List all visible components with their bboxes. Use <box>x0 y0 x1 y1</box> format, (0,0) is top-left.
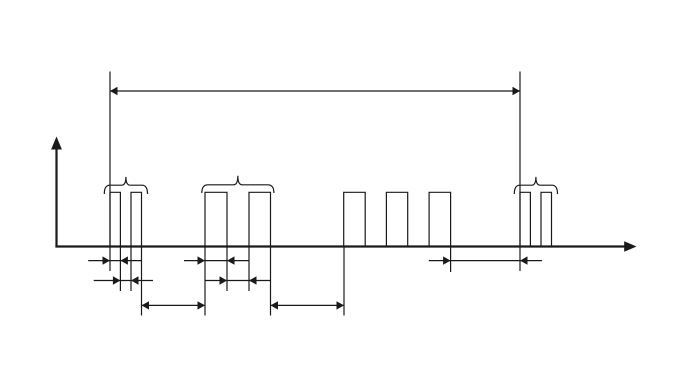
dimension row2 G2 (gap) <box>205 276 271 284</box>
extension below baseline x=450.6 <box>450 247 452 273</box>
pulse G2-P2 <box>249 192 271 246</box>
pulse G3-P1 <box>344 192 366 246</box>
y-axis <box>51 137 62 247</box>
brace over group 1 <box>104 177 147 194</box>
dimension row1 G2 (pulse width) <box>184 256 249 264</box>
pulse G3-P2 <box>386 192 407 246</box>
pulse G1-P1 <box>110 192 120 246</box>
extension line right (top dimension, x=520) <box>519 72 521 272</box>
x-axis <box>55 241 636 251</box>
pulse G4-P2 <box>541 192 552 246</box>
top dimension line <box>110 87 520 95</box>
dimension row1 right (G3 end to G4 start) <box>429 256 542 264</box>
pulse G4-P1 <box>520 192 530 246</box>
pulse G3-P3 <box>429 192 451 246</box>
pulse G1-P2 <box>131 192 142 246</box>
brace over group 2 <box>202 176 274 193</box>
dimension row3 b (G2 end to G3 start) <box>271 301 345 309</box>
dimension row2 G1 (gap) <box>94 276 153 284</box>
dimension row3 a (G1 end to G2 start) <box>142 301 206 309</box>
extension below baseline x=227 <box>226 247 228 292</box>
extension below baseline x=344 <box>343 247 345 316</box>
extension below baseline x=270.5 <box>270 247 272 316</box>
extension below baseline x=131 <box>130 247 132 292</box>
extension line left (top dimension, x=110) <box>109 72 111 272</box>
dimension row1 G1 (pulse width) <box>88 256 141 264</box>
extension below baseline x=249 <box>248 247 250 292</box>
extension below baseline x=205 <box>204 247 206 316</box>
pulse G2-P1 <box>205 192 227 246</box>
brace over group 4 <box>514 177 557 194</box>
extension below baseline x=120.4 <box>119 247 121 292</box>
extension below baseline x=141.5 <box>141 247 143 316</box>
